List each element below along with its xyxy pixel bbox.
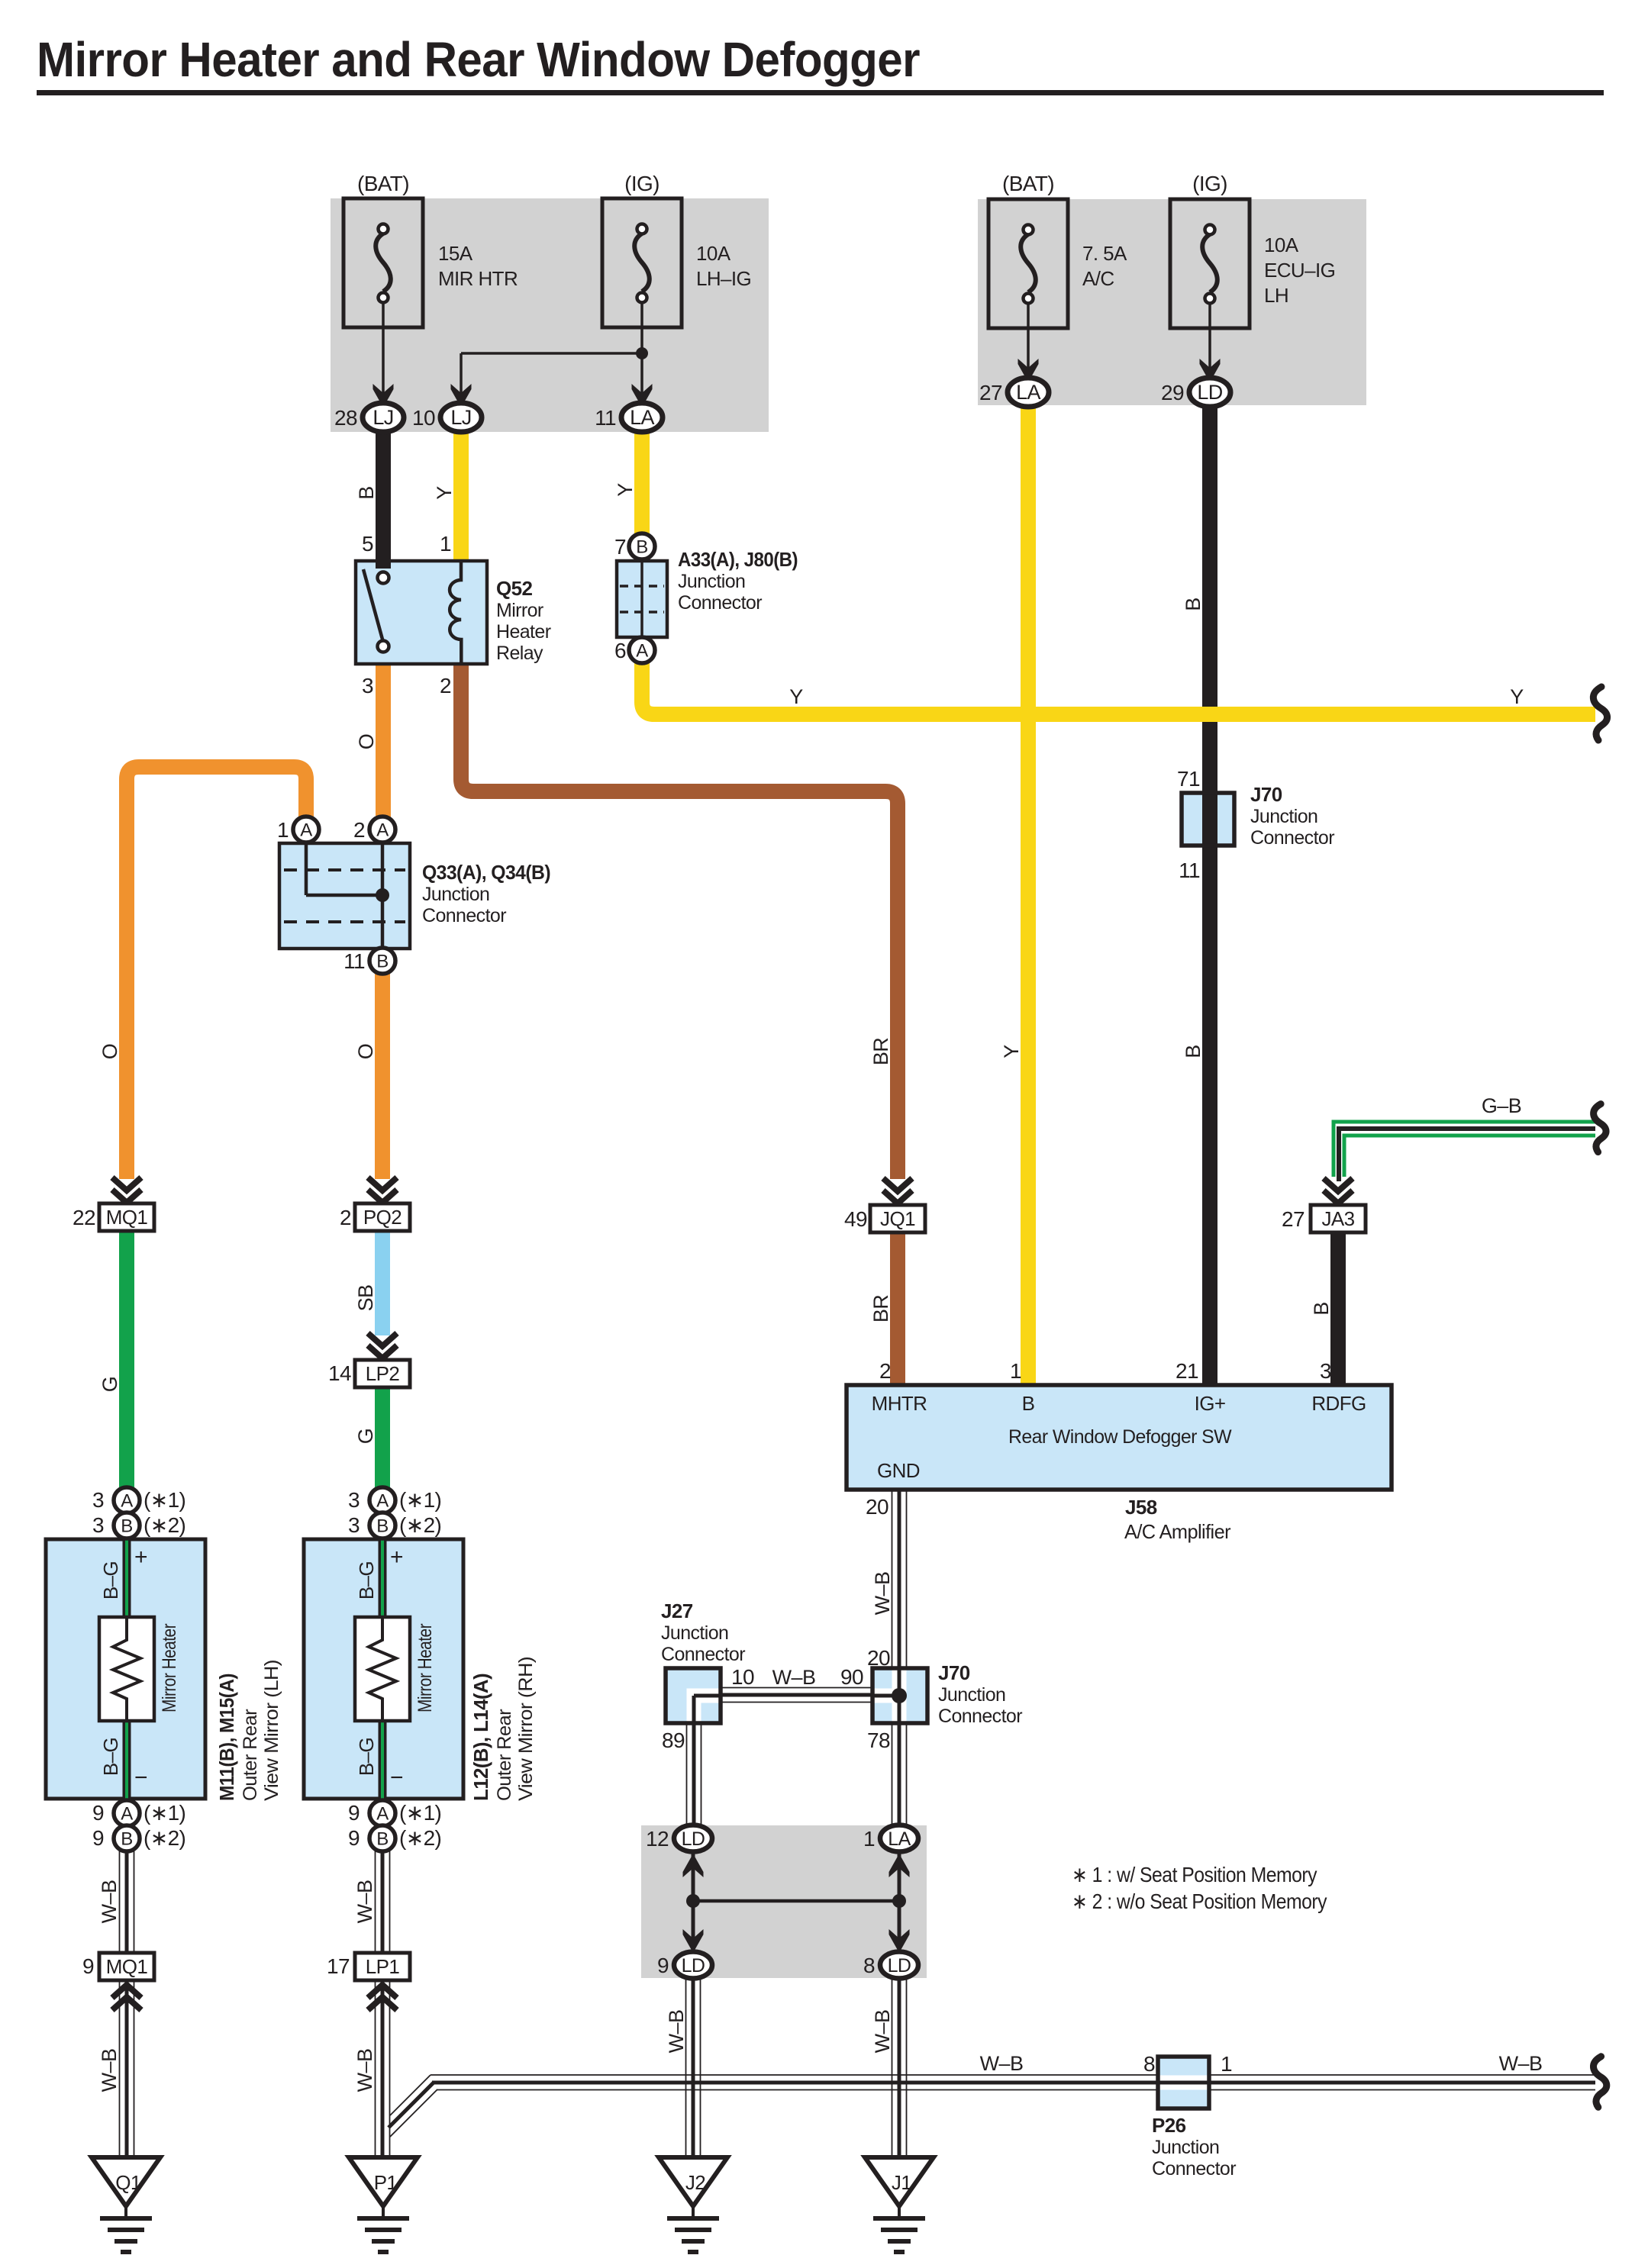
svg-text:O: O: [354, 1044, 377, 1059]
svg-text:8: 8: [1143, 2052, 1155, 2076]
svg-text:MHTR: MHTR: [872, 1392, 927, 1415]
svg-text:3: 3: [92, 1513, 104, 1537]
svg-text:27: 27: [1282, 1207, 1305, 1231]
svg-text:G: G: [98, 1377, 121, 1392]
svg-text:2: 2: [440, 674, 451, 697]
svg-text:(∗1): (∗1): [399, 1801, 441, 1825]
svg-text:49: 49: [844, 1207, 867, 1231]
svg-text:W–B: W–B: [98, 1880, 121, 1924]
svg-text:B–G: B–G: [355, 1738, 378, 1776]
svg-text:(∗1): (∗1): [144, 1801, 185, 1825]
svg-text:W–B: W–B: [665, 2010, 688, 2054]
svg-text:B: B: [1182, 598, 1205, 610]
svg-text:View Mirror (LH): View Mirror (LH): [261, 1660, 282, 1801]
svg-text:B: B: [376, 952, 388, 972]
svg-text:2: 2: [353, 818, 365, 842]
svg-text:RDFG: RDFG: [1311, 1392, 1366, 1415]
svg-text:∗ 2 : w/o Seat Position Memory: ∗ 2 : w/o Seat Position Memory: [1072, 1889, 1327, 1913]
svg-text:ECU–IG: ECU–IG: [1264, 259, 1335, 282]
svg-text:Junction: Junction: [661, 1622, 728, 1644]
svg-text:5: 5: [362, 532, 373, 556]
svg-text:9: 9: [348, 1826, 360, 1850]
svg-text:9: 9: [657, 1954, 669, 1977]
svg-text:G–B: G–B: [1482, 1094, 1521, 1117]
svg-text:(IG): (IG): [1192, 172, 1227, 195]
svg-text:B–G: B–G: [99, 1738, 122, 1776]
svg-text:−: −: [390, 1765, 403, 1790]
svg-text:Junction: Junction: [1152, 2137, 1219, 2158]
svg-text:A: A: [121, 1804, 133, 1825]
svg-text:1: 1: [1221, 2052, 1232, 2076]
svg-text:J58: J58: [1125, 1496, 1157, 1519]
svg-text:15A: 15A: [438, 242, 473, 265]
svg-text:Connector: Connector: [422, 905, 506, 926]
svg-text:Connector: Connector: [661, 1644, 745, 1665]
svg-text:1: 1: [863, 1827, 875, 1851]
svg-text:Rear Window Defogger SW: Rear Window Defogger SW: [1008, 1426, 1232, 1448]
svg-text:LJ: LJ: [372, 406, 393, 429]
svg-text:Mirror: Mirror: [496, 600, 543, 621]
svg-text:B: B: [1022, 1392, 1035, 1415]
svg-text:−: −: [134, 1765, 147, 1790]
svg-text:11: 11: [595, 406, 616, 430]
svg-text:B: B: [355, 486, 378, 499]
svg-text:LP2: LP2: [366, 1362, 400, 1385]
svg-text:9: 9: [348, 1801, 360, 1825]
svg-text:+: +: [390, 1545, 403, 1570]
svg-text:Y: Y: [614, 483, 637, 497]
svg-text:Q1: Q1: [115, 2171, 141, 2194]
svg-text:MQ1: MQ1: [106, 1206, 148, 1229]
svg-text:BR: BR: [869, 1295, 892, 1322]
svg-text:1: 1: [277, 818, 289, 842]
svg-text:A: A: [376, 1804, 389, 1825]
svg-text:14: 14: [328, 1361, 351, 1385]
svg-text:B–G: B–G: [99, 1561, 122, 1600]
svg-text:9: 9: [92, 1826, 104, 1850]
svg-text:Relay: Relay: [496, 643, 543, 664]
svg-text:W–B: W–B: [353, 2049, 376, 2092]
svg-text:B: B: [636, 537, 647, 558]
svg-text:LD: LD: [682, 1955, 705, 1976]
svg-text:10A: 10A: [1264, 234, 1299, 256]
svg-text:1: 1: [440, 532, 451, 556]
svg-text:78: 78: [867, 1728, 890, 1752]
svg-text:W–B: W–B: [1499, 2052, 1543, 2075]
svg-text:LA: LA: [1016, 381, 1040, 404]
svg-text:IG+: IG+: [1195, 1392, 1226, 1415]
svg-text:20: 20: [866, 1495, 889, 1519]
svg-text:27: 27: [979, 381, 1002, 404]
svg-text:O: O: [98, 1044, 121, 1059]
svg-text:Connector: Connector: [938, 1706, 1022, 1727]
svg-text:A/C: A/C: [1082, 267, 1114, 290]
svg-text:(∗1): (∗1): [144, 1488, 185, 1512]
svg-text:8: 8: [863, 1954, 875, 1977]
svg-text:Junction: Junction: [678, 571, 745, 592]
svg-text:A: A: [376, 820, 389, 841]
svg-text:Q52: Q52: [496, 577, 532, 600]
svg-text:Connector: Connector: [1152, 2158, 1236, 2179]
svg-text:B–G: B–G: [355, 1561, 378, 1600]
svg-text:B: B: [121, 1829, 132, 1850]
svg-text:Mirror Heater: Mirror Heater: [414, 1624, 436, 1712]
svg-text:BR: BR: [869, 1038, 892, 1065]
svg-text:11: 11: [343, 949, 365, 973]
svg-text:Connector: Connector: [1250, 827, 1334, 849]
svg-text:9: 9: [92, 1801, 104, 1825]
svg-text:Outer Rear: Outer Rear: [494, 1709, 515, 1801]
svg-text:A: A: [300, 820, 312, 841]
svg-text:10: 10: [731, 1665, 754, 1689]
svg-text:JA3: JA3: [1321, 1207, 1354, 1230]
svg-text:A/C Amplifier: A/C Amplifier: [1124, 1520, 1231, 1543]
svg-text:3: 3: [92, 1488, 104, 1512]
svg-text:PQ2: PQ2: [363, 1206, 402, 1229]
svg-text:Y: Y: [789, 685, 803, 708]
svg-text:1: 1: [1010, 1359, 1021, 1383]
svg-text:MIR HTR: MIR HTR: [438, 267, 518, 290]
svg-text:29: 29: [1161, 381, 1184, 404]
svg-text:(BAT): (BAT): [1002, 172, 1054, 195]
svg-text:(∗2): (∗2): [399, 1513, 441, 1537]
svg-text:LJ: LJ: [450, 406, 471, 429]
svg-text:Q33(A), Q34(B): Q33(A), Q34(B): [422, 861, 550, 884]
svg-text:A: A: [121, 1491, 133, 1512]
svg-text:J70: J70: [1250, 783, 1282, 806]
svg-text:LA: LA: [888, 1828, 911, 1850]
svg-text:2: 2: [340, 1206, 351, 1229]
svg-text:11: 11: [1179, 859, 1200, 882]
svg-text:Mirror Heater and Rear Window: Mirror Heater and Rear Window Defogger: [37, 32, 920, 87]
svg-text:Outer Rear: Outer Rear: [240, 1709, 261, 1801]
svg-text:View Mirror (RH): View Mirror (RH): [515, 1657, 537, 1801]
svg-text:21: 21: [1176, 1359, 1198, 1383]
svg-text:Mirror Heater: Mirror Heater: [159, 1624, 180, 1712]
svg-text:+: +: [134, 1545, 147, 1570]
svg-text:6: 6: [614, 639, 626, 662]
svg-text:L12(B), L14(A): L12(B), L14(A): [469, 1674, 492, 1801]
svg-text:3: 3: [348, 1513, 360, 1537]
svg-text:MQ1: MQ1: [106, 1955, 148, 1978]
svg-text:A: A: [376, 1491, 389, 1512]
svg-text:B: B: [121, 1516, 132, 1537]
svg-text:B: B: [1310, 1302, 1333, 1315]
svg-text:W–B: W–B: [980, 2052, 1024, 2075]
svg-text:P1: P1: [374, 2171, 398, 2194]
svg-text:LA: LA: [630, 406, 654, 429]
svg-text:A: A: [636, 641, 648, 662]
svg-text:G: G: [354, 1429, 377, 1444]
svg-text:J1: J1: [892, 2171, 911, 2194]
svg-text:10: 10: [412, 406, 435, 430]
svg-text:LP1: LP1: [366, 1955, 400, 1978]
svg-text:M11(B), M15(A): M11(B), M15(A): [215, 1674, 238, 1801]
svg-text:(IG): (IG): [624, 172, 660, 195]
svg-text:2: 2: [879, 1359, 891, 1383]
svg-text:90: 90: [840, 1665, 863, 1689]
svg-text:J70: J70: [938, 1661, 970, 1684]
svg-text:(∗2): (∗2): [144, 1513, 185, 1537]
svg-text:Junction: Junction: [1250, 806, 1317, 827]
svg-text:J27: J27: [661, 1600, 693, 1622]
svg-text:7: 7: [614, 535, 626, 559]
svg-text:12: 12: [646, 1827, 669, 1851]
svg-text:20: 20: [867, 1646, 890, 1670]
svg-text:3: 3: [348, 1488, 360, 1512]
svg-text:LD: LD: [682, 1828, 705, 1850]
svg-text:89: 89: [662, 1728, 685, 1752]
svg-text:B: B: [376, 1829, 388, 1850]
svg-text:Heater: Heater: [496, 621, 551, 643]
svg-text:(∗2): (∗2): [399, 1826, 441, 1850]
svg-text:A33(A), J80(B): A33(A), J80(B): [678, 548, 798, 571]
svg-text:Y: Y: [1510, 685, 1524, 708]
svg-text:LH–IG: LH–IG: [696, 267, 751, 290]
svg-text:71: 71: [1177, 767, 1200, 791]
svg-text:GND: GND: [877, 1459, 920, 1482]
svg-text:28: 28: [334, 406, 357, 430]
svg-text:(∗2): (∗2): [144, 1826, 185, 1850]
svg-text:∗ 1 : w/ Seat Position Memory: ∗ 1 : w/ Seat Position Memory: [1072, 1863, 1317, 1886]
svg-text:17: 17: [327, 1954, 350, 1978]
svg-text:W–B: W–B: [353, 1880, 376, 1924]
svg-text:W–B: W–B: [871, 2010, 894, 2054]
svg-text:P26: P26: [1152, 2114, 1186, 2137]
svg-text:Junction: Junction: [938, 1684, 1005, 1706]
svg-text:W–B: W–B: [871, 1572, 894, 1616]
svg-text:Y: Y: [433, 486, 456, 500]
svg-text:W–B: W–B: [772, 1666, 816, 1689]
svg-text:9: 9: [82, 1954, 94, 1978]
svg-text:LD: LD: [888, 1955, 911, 1976]
svg-text:3: 3: [1320, 1359, 1331, 1383]
svg-text:3: 3: [362, 674, 373, 697]
svg-text:Junction: Junction: [422, 884, 489, 905]
svg-text:10A: 10A: [696, 242, 731, 265]
svg-text:7. 5A: 7. 5A: [1082, 242, 1127, 265]
svg-text:22: 22: [73, 1206, 95, 1229]
svg-text:Connector: Connector: [678, 592, 762, 614]
svg-text:(BAT): (BAT): [357, 172, 409, 195]
svg-text:W–B: W–B: [98, 2049, 121, 2092]
svg-text:LD: LD: [1197, 381, 1222, 404]
svg-text:B: B: [1182, 1045, 1205, 1058]
svg-text:B: B: [376, 1516, 388, 1537]
svg-text:SB: SB: [354, 1285, 377, 1312]
svg-text:LH: LH: [1264, 284, 1288, 307]
svg-text:O: O: [355, 734, 378, 749]
svg-text:J2: J2: [685, 2171, 705, 2194]
svg-text:Y: Y: [1000, 1045, 1023, 1058]
svg-text:(∗1): (∗1): [399, 1488, 441, 1512]
svg-text:JQ1: JQ1: [880, 1207, 915, 1230]
